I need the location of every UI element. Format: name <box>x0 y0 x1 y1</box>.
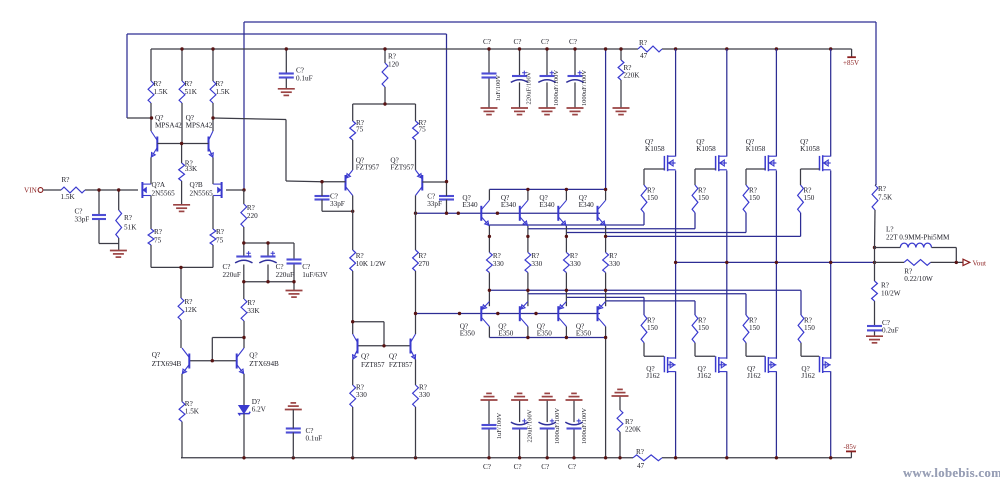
svg-text:E350: E350 <box>576 329 592 337</box>
wire R top leads <box>151 49 213 81</box>
resistor R? 150 U2 <box>692 185 709 213</box>
capacitor C? bottom bank 3 <box>539 400 562 471</box>
ground top bank gnd 4 <box>567 108 584 115</box>
ground bot bank gnd 4 <box>566 393 583 400</box>
svg-text:R?: R? <box>531 252 539 260</box>
ground C01 bot gnd <box>285 403 302 410</box>
wire E340 col 1 <box>488 189 490 252</box>
svg-text:E350: E350 <box>537 329 553 337</box>
wire R330L col 2 <box>527 273 529 307</box>
resistor R? 33K lower <box>241 299 260 321</box>
svg-text:C?: C? <box>296 67 304 75</box>
svg-text:ZTX694B: ZTX694B <box>249 360 279 368</box>
wire R33K gnd lead <box>181 181 183 205</box>
svg-text:Q?A: Q?A <box>152 181 166 189</box>
ground top bank gnd 1 <box>481 108 498 115</box>
ground C01 top gnd <box>278 89 295 96</box>
wire supply drop x605 <box>605 49 607 189</box>
svg-text:75: 75 <box>419 126 427 134</box>
inductor L? <box>886 226 950 248</box>
svg-text:C?: C? <box>223 263 231 271</box>
wire J162 gate 4 <box>801 343 819 357</box>
svg-text:1000uF/100V: 1000uF/100V <box>581 408 588 444</box>
svg-text:33pF: 33pF <box>75 216 90 224</box>
svg-text:150: 150 <box>749 194 760 202</box>
wire VIN to JFET <box>43 189 138 191</box>
svg-text:33K: 33K <box>247 307 260 315</box>
svg-text:150: 150 <box>647 324 658 332</box>
svg-text:270: 270 <box>419 260 430 268</box>
wire zobel col <box>874 262 876 336</box>
capacitor C? bottom bank 2 <box>511 400 534 471</box>
svg-text:1000uF/100V: 1000uF/100V <box>553 70 560 106</box>
svg-text:220uF: 220uF <box>223 271 241 279</box>
svg-text:330: 330 <box>609 260 620 268</box>
svg-text:R?: R? <box>154 228 162 236</box>
transistor Q? E340 2 <box>501 194 528 226</box>
svg-text:R?: R? <box>62 176 70 184</box>
svg-text:150: 150 <box>698 194 709 202</box>
wire J162 col 4 <box>830 262 832 457</box>
svg-text:1.5K: 1.5K <box>154 88 169 96</box>
svg-text:R?: R? <box>185 80 193 88</box>
svg-text:R?: R? <box>124 214 132 222</box>
svg-text:C?: C? <box>568 463 576 471</box>
wire E340 base bus <box>416 212 601 214</box>
resistor R? 75 c <box>350 119 364 140</box>
svg-text:R?: R? <box>881 282 889 290</box>
svg-text:10K 1/2W: 10K 1/2W <box>356 260 386 268</box>
svg-text:10/2W: 10/2W <box>881 290 901 298</box>
svg-text:0.2uF: 0.2uF <box>882 327 899 335</box>
svg-text:E340: E340 <box>539 201 555 209</box>
svg-text:R?: R? <box>493 252 501 260</box>
resistor R? 220K top <box>618 60 640 80</box>
svg-text:E350: E350 <box>498 329 514 337</box>
transistor Q? E340 3 <box>539 194 566 226</box>
wire R220 leads <box>243 190 245 243</box>
svg-text:E340: E340 <box>462 201 478 209</box>
ground top bank gnd 3 <box>539 108 556 115</box>
svg-text:C?: C? <box>483 463 491 471</box>
transistor Q? E350 1 <box>460 302 490 338</box>
MOSFET Q? K1058 2 <box>696 138 727 171</box>
svg-text:33K: 33K <box>185 165 198 173</box>
resistor R? 330 1 <box>487 252 505 273</box>
svg-text:E340: E340 <box>579 201 595 209</box>
ground zobel gnd <box>866 336 883 343</box>
wire E340 col 4 <box>605 189 607 252</box>
resistor R? 150 U3 <box>743 185 760 213</box>
wire E340 col 3 <box>565 189 567 252</box>
svg-text:220uF/100V: 220uF/100V <box>527 409 534 442</box>
wire fzt857 col links <box>353 271 416 346</box>
svg-text:R?: R? <box>878 185 886 193</box>
svg-text:330: 330 <box>570 260 581 268</box>
wire fb column <box>875 185 877 262</box>
svg-text:C?: C? <box>514 463 522 471</box>
resistor R? 220K bottom <box>617 410 642 434</box>
svg-text:330: 330 <box>493 260 504 268</box>
resistor R? 12K <box>178 298 198 320</box>
wire ztx links <box>181 320 244 361</box>
svg-text:MPSA42: MPSA42 <box>186 121 213 129</box>
ground R220K bot gnd <box>612 389 629 396</box>
wire C33 branch <box>99 190 119 250</box>
wire R120 split <box>353 87 416 121</box>
resistor R? 330 3 <box>564 252 582 273</box>
svg-text:0.22/10W: 0.22/10W <box>904 275 933 283</box>
wire R330L col 4 <box>605 273 607 307</box>
resistor R? 75 b <box>210 228 224 245</box>
resistor R? 150 L2 <box>692 315 709 343</box>
svg-text:R?: R? <box>247 204 255 212</box>
resistor R? 330 4 <box>603 252 621 273</box>
svg-text:33pF: 33pF <box>330 200 345 208</box>
wire E350 col fix <box>489 327 605 338</box>
transistor Q? ZTX694B right <box>237 348 279 374</box>
resistor R? 150 L3 <box>743 315 760 343</box>
svg-text:+85V: +85V <box>843 59 859 67</box>
transistor Q? E340 4 <box>579 194 606 226</box>
wire C33L leads <box>322 182 353 212</box>
wire mpsa base bus <box>157 103 208 163</box>
resistor R? 270 <box>413 250 430 271</box>
ground mpsa bias gnd <box>173 205 190 212</box>
wire +rail y49 <box>151 48 852 50</box>
resistor R? 150 U4 <box>798 185 815 213</box>
svg-text:51K: 51K <box>185 88 198 96</box>
svg-text:VIN: VIN <box>24 187 38 195</box>
junction dots source bus dot <box>179 266 182 269</box>
wire gate bus U4 <box>606 213 801 237</box>
transistor Q? ZTX694B left <box>152 348 190 374</box>
svg-text:330: 330 <box>419 391 430 399</box>
svg-text:Q?: Q? <box>361 353 369 361</box>
ground top bank gnd 2 <box>511 108 528 115</box>
ground bot bank gnd 3 <box>539 393 556 400</box>
svg-text:220: 220 <box>247 212 258 220</box>
resistor R? 47 top <box>638 39 662 60</box>
MOSFET Q? K1058 3 <box>746 138 777 171</box>
svg-text:Q?: Q? <box>152 351 160 359</box>
resistor R? 33K bias <box>179 160 198 182</box>
junction dots top rail dots <box>180 47 832 50</box>
MOSFET Q? J162 3 <box>747 356 776 380</box>
junction dots bottom rail dots mid <box>487 456 621 459</box>
resistor R? 10/2W <box>872 281 901 301</box>
svg-text:R?: R? <box>216 228 224 236</box>
resistor R? 7.5K <box>872 185 893 210</box>
wire output bus <box>676 261 875 263</box>
wire E350 collector bus <box>489 337 605 339</box>
svg-text:R?: R? <box>388 53 396 61</box>
svg-text:47: 47 <box>640 52 648 60</box>
svg-text:1000uF/100V: 1000uF/100V <box>581 70 588 106</box>
svg-text:75: 75 <box>154 237 162 245</box>
junction dots fzt957 dots <box>320 102 499 215</box>
MOSFET Q? K1058 1 <box>645 138 676 171</box>
svg-text:C?: C? <box>514 38 522 46</box>
svg-text:J162: J162 <box>698 372 712 380</box>
wire L leads <box>875 248 957 263</box>
port Vout <box>963 259 986 267</box>
wire neg drop x605 <box>605 338 607 458</box>
svg-text:330: 330 <box>531 260 542 268</box>
wire diff cross line y34 <box>127 34 447 182</box>
resistor R? 51K b <box>179 80 198 103</box>
wire -rail y458 <box>181 457 851 459</box>
capacitor C? 0.2uF <box>867 319 899 335</box>
svg-text:150: 150 <box>647 194 658 202</box>
wire K1058 gate 2 <box>695 169 716 185</box>
capacitor C? top bank 4 <box>566 38 588 108</box>
wire jfet sources <box>151 196 213 230</box>
svg-text:1.5K: 1.5K <box>216 88 231 96</box>
wire gate bus U2 <box>528 213 695 229</box>
power port -85v <box>844 443 857 458</box>
resistor R? 75 d <box>413 119 427 140</box>
resistor R? 75 a <box>148 228 162 245</box>
resistor R? 120 <box>382 53 399 88</box>
svg-text:K1058: K1058 <box>645 145 665 153</box>
transistor Q? E340 1 <box>462 194 489 226</box>
power port +85V <box>843 49 859 67</box>
transistor Q? FZT857 right <box>389 334 416 369</box>
resistor R? 1.5K input <box>61 176 86 201</box>
svg-text:150: 150 <box>804 324 815 332</box>
svg-text:R?: R? <box>356 252 364 260</box>
capacitor C? 33pF left <box>315 193 345 209</box>
svg-text:L?: L? <box>886 226 894 234</box>
svg-text:J162: J162 <box>747 372 761 380</box>
resistor R? 51K input <box>116 210 137 238</box>
junction dots vout dot <box>955 261 958 264</box>
wire K1058 col 4 <box>830 49 832 262</box>
wire collector feeds <box>127 103 213 131</box>
wire J162 gate 1 <box>644 343 664 357</box>
svg-text:FZT957: FZT957 <box>390 164 414 172</box>
resistor R? 1.5K c <box>210 80 230 103</box>
svg-text:FZT957: FZT957 <box>356 164 380 172</box>
svg-text:2N5565: 2N5565 <box>190 190 214 198</box>
svg-text:330: 330 <box>356 391 367 399</box>
MOSFET Q? K1058 4 <box>800 138 831 171</box>
svg-text:6.2V: 6.2V <box>252 406 267 414</box>
wire zener to rail <box>243 414 245 458</box>
port VIN <box>24 187 43 195</box>
svg-text:R?: R? <box>636 448 644 456</box>
capacitor C? top bank 1 <box>482 38 503 108</box>
wire C33R leads <box>446 182 448 213</box>
svg-text:1000uF/100V: 1000uF/100V <box>554 408 561 444</box>
svg-text:E350: E350 <box>460 329 476 337</box>
svg-text:22T 0.9MM-Phi5MM: 22T 0.9MM-Phi5MM <box>886 234 950 242</box>
svg-text:33pF: 33pF <box>427 200 442 208</box>
wire K1058 gate 4 <box>801 169 820 185</box>
wire J162 gate 2 <box>695 343 715 357</box>
junction dots bottom rail dots left <box>242 456 417 459</box>
svg-text:Vout: Vout <box>973 259 986 267</box>
svg-text:1.5K: 1.5K <box>185 408 200 416</box>
svg-text:-85v: -85v <box>844 443 857 451</box>
wire source bus <box>151 245 213 298</box>
svg-text:2N5565: 2N5565 <box>152 190 176 198</box>
capacitor C? bottom bank 4 <box>565 400 588 471</box>
resistor R? 150 L4 <box>798 315 815 343</box>
resistor R? 1.5K a <box>148 80 168 103</box>
svg-text:FZT857: FZT857 <box>389 361 413 369</box>
resistor R? 330 f <box>413 384 431 408</box>
wire gate bus L2 <box>528 294 746 315</box>
svg-text:150: 150 <box>749 324 760 332</box>
wire mid bank bars <box>244 243 294 299</box>
wire C01 top lead <box>285 49 287 89</box>
transistor Q? E350 3 <box>537 302 567 338</box>
svg-text:Q?: Q? <box>389 353 397 361</box>
wire R120 lead <box>384 49 386 63</box>
wire R1.5Kb to rail <box>181 422 182 458</box>
svg-text:7.5K: 7.5K <box>878 194 893 202</box>
wire fzt957 emitter leads <box>353 140 416 170</box>
svg-text:C?: C? <box>75 208 83 216</box>
transistor Q? FZT857 left <box>353 334 385 369</box>
MOSFET Q? J162 4 <box>801 356 830 380</box>
junction dots input node <box>97 188 120 191</box>
svg-text:R?: R? <box>419 252 427 260</box>
svg-text:MPSA42: MPSA42 <box>155 121 182 129</box>
svg-text:ZTX694B: ZTX694B <box>152 360 182 368</box>
capacitor C? 33pF right <box>427 193 454 209</box>
svg-text:150: 150 <box>698 324 709 332</box>
capacitor C? bottom bank 1 <box>482 400 504 471</box>
wire out line segs <box>875 261 964 263</box>
svg-text:1uF/100V: 1uF/100V <box>495 75 502 102</box>
junction dots driver dots <box>458 188 608 460</box>
capacitor C? 220uF a <box>223 251 253 279</box>
wire gate bus U3 <box>566 213 746 233</box>
wire J162 col 2 <box>726 262 728 457</box>
junction dots output fet rail dots <box>674 456 833 459</box>
resistor R? 330 2 <box>525 252 543 273</box>
resistor R? 0.22/10W <box>904 260 933 284</box>
svg-text:1uF/63V: 1uF/63V <box>302 271 328 279</box>
svg-text:12K: 12K <box>185 306 198 314</box>
svg-text:R?: R? <box>185 298 193 306</box>
transistor Q? FZT957 right <box>390 157 422 196</box>
junction dots mid bank dots <box>242 241 296 283</box>
junction dots mpsa dots <box>150 116 215 145</box>
zener diode D? 6.2V <box>239 398 267 416</box>
watermark www.lobebis.com <box>903 466 1000 480</box>
wire K1058 col 3 <box>775 49 777 262</box>
svg-text:R?: R? <box>639 39 647 47</box>
svg-text:0.1uF: 0.1uF <box>296 75 313 83</box>
svg-text:K1058: K1058 <box>696 145 716 153</box>
svg-text:120: 120 <box>388 61 399 69</box>
wire fzt957L base <box>322 181 346 183</box>
resistor R? 1.5K bottom <box>179 400 200 422</box>
wire QB gate wire <box>226 189 244 191</box>
wire ztx emitter leads <box>182 374 244 405</box>
wire J162 col 3 <box>775 262 777 457</box>
resistor R? 220 <box>241 204 258 227</box>
resistor R? 330 e <box>350 384 367 408</box>
ground bot bank gnd 1 <box>481 393 498 400</box>
wire E350 base bus <box>416 313 601 315</box>
svg-text:75: 75 <box>356 126 364 134</box>
wire fzt957R base <box>422 181 446 183</box>
MOSFET Q? J162 1 <box>646 356 675 380</box>
svg-text:47: 47 <box>637 462 645 470</box>
ground mid bank gnd <box>286 291 303 298</box>
wire feedback top line <box>244 22 876 190</box>
junction dots QB gate node <box>242 188 245 191</box>
capacitor C? 0.1uF bottom <box>286 427 322 443</box>
JFET Q?B 2N5565 <box>190 181 222 198</box>
svg-text:Q?: Q? <box>249 352 257 360</box>
svg-text:R?: R? <box>154 80 162 88</box>
wire gate bus L4 <box>606 301 695 315</box>
junction dots output bus dots <box>674 246 876 264</box>
capacitor C? top bank 3 <box>538 38 560 108</box>
resistor R? 150 U1 <box>641 185 658 213</box>
wire E340 col 2 <box>527 189 529 252</box>
transistor Q? MPSA42 right <box>186 114 214 158</box>
svg-text:75: 75 <box>216 237 224 245</box>
svg-text:R?: R? <box>216 80 224 88</box>
svg-text:C?: C? <box>541 463 549 471</box>
junction dots ztx dots <box>211 336 246 363</box>
svg-text:150: 150 <box>804 194 815 202</box>
ground bot bank gnd 2 <box>511 393 528 400</box>
svg-text:R?: R? <box>247 299 255 307</box>
junction dots fzt857 dots <box>351 312 417 348</box>
wire C01 bot leads <box>292 410 294 458</box>
svg-text:www.lobebis.com: www.lobebis.com <box>903 466 1000 480</box>
wire fzt857 to rail <box>353 407 416 458</box>
svg-text:R?: R? <box>609 252 617 260</box>
ground input gnd <box>110 251 127 258</box>
transistor Q? E350 4 <box>576 302 606 338</box>
transistor Q? FZT957 left <box>346 157 380 196</box>
svg-text:FZT857: FZT857 <box>361 361 385 369</box>
resistor R? 10K 1/2W <box>350 250 386 271</box>
resistor R? 150 L1 <box>641 315 658 343</box>
wire R220K top leads <box>620 49 622 108</box>
wire K1058 gate 3 <box>746 169 765 185</box>
capacitor C? top bank 2 <box>511 38 533 108</box>
capacitor C? 1uF/63V <box>287 260 329 280</box>
JFET Q?A 2N5565 <box>142 181 175 198</box>
svg-text:220K: 220K <box>624 72 641 80</box>
svg-text:J162: J162 <box>646 372 660 380</box>
svg-text:R?: R? <box>570 252 578 260</box>
transistor Q? E350 2 <box>498 302 528 338</box>
wire K1058 gate 1 <box>644 169 664 185</box>
capacitor C? 0.1uF top <box>279 67 313 83</box>
svg-text:0.1uF: 0.1uF <box>306 435 323 443</box>
wire gate bus L3 <box>566 297 644 315</box>
svg-text:220uF: 220uF <box>276 271 294 279</box>
svg-text:J162: J162 <box>801 372 815 380</box>
svg-text:C?: C? <box>541 38 549 46</box>
svg-text:C?: C? <box>483 38 491 46</box>
wire J162 gate 3 <box>746 343 765 357</box>
wire E340 collector bus <box>489 188 605 190</box>
wire R51K top lead <box>118 190 120 210</box>
wire K1058 col 2 <box>726 49 728 262</box>
